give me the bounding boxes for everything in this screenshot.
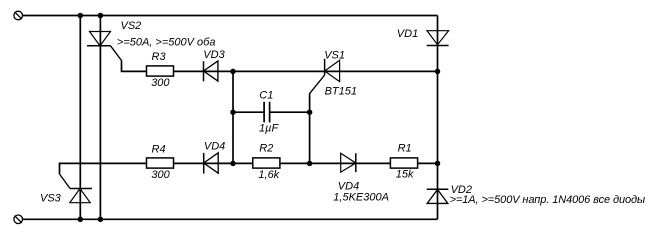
node junction row y=163 / right vertical <box>435 161 441 167</box>
svg-text:1,5KE300A: 1,5KE300A <box>333 192 389 204</box>
capacitor C1 <box>264 102 270 123</box>
diode VD3 <box>204 61 218 81</box>
wire node A down to R2 row <box>232 71 234 163</box>
svg-text:15k: 15k <box>396 168 414 180</box>
wire C1 row left (node A branch to C1 left plate) <box>233 111 264 113</box>
wire VS3 gate up and along row y=163 to R4 <box>60 163 147 174</box>
node junction top rail / x=100 <box>98 13 104 19</box>
node junction bottom rail / x=80 <box>78 217 84 223</box>
diode VD4 (small, after R4) <box>204 153 219 174</box>
node junction row y=163 / VS1 gate vertical <box>307 161 313 167</box>
svg-text:C1: C1 <box>259 89 273 101</box>
node junction bottom rail / x=100 <box>98 217 104 223</box>
wire vertical bus at x=100 (top rail to bottom rail through VS2) <box>99 16 101 220</box>
diode VD2 <box>427 189 449 203</box>
node A (VD3 cathode / C1 branch) <box>230 69 236 75</box>
wire C1 row right (C1 right plate to VS1 gate vertical) <box>270 111 310 113</box>
svg-text:R4: R4 <box>152 143 166 155</box>
svg-text:1µF: 1µF <box>259 123 279 135</box>
node junction y=71 / right vertical <box>435 69 441 75</box>
node junction C1 row / VS1 gate vertical <box>307 109 313 115</box>
node junction row y=163 / x=233 <box>230 161 236 167</box>
wire gate row y=71 (R3 right through VD3, VS1 to right vertical) <box>174 70 438 72</box>
resistor R3 <box>147 66 174 76</box>
terminal X1 (top left input) <box>14 11 23 20</box>
terminal X2 (bottom left input) <box>14 215 23 224</box>
wire right vertical (top rail corner down through VD1 to bottom rail) <box>437 16 439 220</box>
svg-text:VS3: VS3 <box>40 193 62 205</box>
node junction top rail / x=80 <box>78 13 84 19</box>
svg-text:>=1A, >=500V напр. 1N4006 все: >=1A, >=500V напр. 1N4006 все диоды <box>450 194 645 206</box>
svg-text:>=50A, >=500V оба: >=50A, >=500V оба <box>117 36 216 48</box>
thyristor VS1 <box>310 59 340 94</box>
resistor R4 <box>147 158 174 168</box>
wire VS1 gate vertical down to R2 row <box>309 93 311 163</box>
svg-text:R3: R3 <box>152 51 167 63</box>
svg-text:VD1: VD1 <box>397 28 418 40</box>
wire bottom rail <box>23 218 438 220</box>
svg-text:1,6k: 1,6k <box>258 169 279 181</box>
svg-text:300: 300 <box>151 77 170 89</box>
svg-text:VD3: VD3 <box>203 49 225 61</box>
wire row y=163 (R4 right through VD4, R2, VD4 suppressor, R1 to right vertical) <box>174 162 438 164</box>
wire vertical bus at x=80 (top rail to bottom rail through VS3) <box>79 16 81 220</box>
svg-text:R1: R1 <box>398 143 412 155</box>
svg-text:VS2: VS2 <box>121 20 142 32</box>
thyristor VS2 <box>87 32 122 61</box>
wire top rail <box>23 15 438 17</box>
svg-text:VS1: VS1 <box>324 49 345 61</box>
svg-text:R2: R2 <box>259 143 273 155</box>
resistor R2 <box>253 158 280 168</box>
svg-text:300: 300 <box>151 169 170 181</box>
svg-text:BT151: BT151 <box>325 86 357 98</box>
node junction C1 row / x=233 <box>230 109 236 115</box>
wire VS2 gate to R3 <box>122 61 147 72</box>
suppressor diode VD4 1,5KE300A <box>341 153 356 172</box>
diode VD1 <box>427 31 449 46</box>
svg-text:VD4: VD4 <box>204 140 225 152</box>
thyristor VS3 <box>60 174 93 203</box>
resistor R1 <box>390 158 417 168</box>
